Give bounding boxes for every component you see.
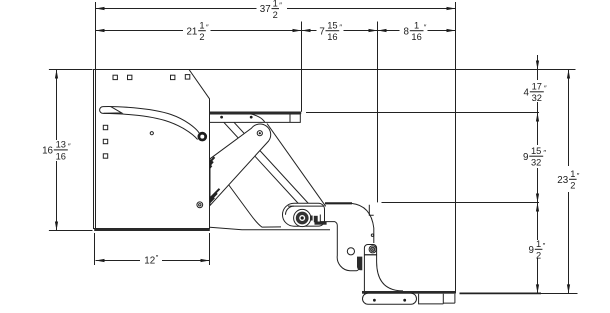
arrow 21.5 left xyxy=(96,29,105,32)
left dim extension ticks xyxy=(49,69,93,71)
dim line 37 1/2 row xyxy=(96,8,257,10)
svg-text:16: 16 xyxy=(56,151,66,161)
arrow 12 left xyxy=(96,259,105,262)
bracket small hole xyxy=(371,234,373,236)
spring arm crease xyxy=(104,106,122,113)
upper tread top surface thick xyxy=(210,112,302,115)
svg-text:″: ″ xyxy=(68,142,71,151)
arrow 9_15/32 bottom xyxy=(536,194,539,203)
label 7 15/16 xyxy=(319,21,342,43)
upper tread body xyxy=(210,114,301,122)
riser gusset hypotenuse xyxy=(267,124,326,207)
bracket big hole xyxy=(347,248,354,255)
svg-text:17: 17 xyxy=(532,82,542,92)
plate rivet double circle xyxy=(197,202,203,208)
svg-text:32: 32 xyxy=(531,158,541,168)
label 21 1/2 xyxy=(186,21,209,43)
arrow 9_1/2 bottom xyxy=(536,284,539,293)
arrow 37.5 left xyxy=(96,7,105,10)
svg-text:2: 2 xyxy=(536,251,541,261)
step bracket shoulder and right edge xyxy=(352,203,374,243)
dim line 21 1/2 segment xyxy=(96,30,184,32)
step channel mid xyxy=(419,294,455,304)
wire dim extension line left x=95 xyxy=(95,2,97,70)
spring arm xyxy=(103,107,199,140)
svg-text:23: 23 xyxy=(557,175,568,186)
svg-text:9: 9 xyxy=(523,152,528,163)
svg-text:″: ″ xyxy=(156,253,159,262)
arrow 23_1/2 bottom xyxy=(567,284,570,293)
step bracket hook and left edge xyxy=(320,215,359,271)
arrow 23_1/2 top xyxy=(567,70,570,79)
hatch wedge upper xyxy=(210,157,215,168)
svg-text:2: 2 xyxy=(273,10,278,20)
label 9 1/2 xyxy=(529,239,546,261)
svg-text:″: ″ xyxy=(544,84,547,93)
pad bolt 2 xyxy=(403,299,406,302)
plate hole row top 1 xyxy=(113,75,117,79)
svg-text:15: 15 xyxy=(531,146,541,156)
label 12 xyxy=(144,253,158,266)
svg-text:9: 9 xyxy=(529,245,534,256)
plate small hole xyxy=(150,132,153,135)
boss notch xyxy=(310,216,313,221)
upper tread end lip xyxy=(289,114,291,122)
hook dark fill xyxy=(314,216,318,223)
front arm lower boss xyxy=(283,203,325,226)
arrow 12 right xyxy=(201,259,210,262)
wire dim extension line x=301 xyxy=(301,22,303,112)
arm cap silhouette in tread xyxy=(250,114,265,123)
dim line 8 1/16 segment xyxy=(378,30,400,32)
svg-text:2: 2 xyxy=(570,181,575,191)
upper tread rivet 1 xyxy=(220,116,223,119)
svg-text:″: ″ xyxy=(339,23,342,32)
svg-text:1: 1 xyxy=(273,0,278,8)
mounting plate inner left edge xyxy=(95,70,97,229)
arrow 9_1/2 top xyxy=(536,203,539,212)
svg-text:1: 1 xyxy=(570,169,575,179)
svg-text:13: 13 xyxy=(56,140,66,150)
svg-text:21: 21 xyxy=(186,26,197,37)
spring arm left cap xyxy=(100,107,103,114)
arrow 7_15/16 right xyxy=(369,29,378,32)
plate hole left col 3 xyxy=(103,154,107,158)
arrow 8_1/16 left xyxy=(378,29,387,32)
svg-text:″: ″ xyxy=(424,23,427,32)
arrow 16_13/16 top xyxy=(55,70,58,79)
label 37 1/2 xyxy=(260,0,282,20)
right dim line 23 1/2 x=568.5 xyxy=(568,70,570,167)
step bracket top edge xyxy=(325,202,352,204)
plate hole row top 2 xyxy=(128,75,132,79)
gusset lower bottom edge xyxy=(210,227,330,230)
boss pivot ring hatched xyxy=(298,213,307,222)
bottom dim extension lines xyxy=(94,233,96,265)
arrow 8_1/16 right xyxy=(447,29,456,32)
arrow 16_13/16 bottom xyxy=(55,222,58,231)
label 8 1/16 xyxy=(404,21,427,43)
wire dim extension line x=377 xyxy=(377,22,379,203)
rear arm white strip xyxy=(210,124,271,205)
upper tread rivet 2 xyxy=(250,116,253,119)
arrowheads xyxy=(55,7,570,294)
hatch wedge lower xyxy=(210,189,220,203)
bracket bumper xyxy=(357,257,362,271)
plate hole left col 1 xyxy=(103,125,107,129)
step bracket leg xyxy=(364,255,367,302)
svg-text:16: 16 xyxy=(327,32,337,42)
wire dim extension line right x=454.5 xyxy=(455,2,457,294)
step bracket fillet to step xyxy=(377,255,403,291)
lower step top surface thick xyxy=(362,291,455,294)
boss pivot center xyxy=(301,216,304,219)
svg-text:7: 7 xyxy=(319,26,324,37)
boss left inner arc xyxy=(286,206,295,215)
arrow 37.5 right xyxy=(447,7,456,10)
arrow 7_15/16 left xyxy=(302,29,311,32)
arrow 4_17/32 bottom / 9_15/32 top xyxy=(536,113,539,122)
boss top edge inner line xyxy=(288,205,324,207)
boss pivot outer xyxy=(294,209,311,226)
tread top reference line y=112.5 xyxy=(306,112,539,114)
svg-text:15: 15 xyxy=(327,21,337,31)
sill reference line y=69.2 xyxy=(188,69,576,71)
mounting plate bottom flange xyxy=(94,228,210,231)
pad bolt 1 xyxy=(373,299,376,302)
svg-text:2: 2 xyxy=(199,32,204,42)
label 23 1/2 xyxy=(557,169,580,191)
svg-text:″: ″ xyxy=(543,241,546,250)
svg-text:16: 16 xyxy=(42,146,53,157)
svg-text:12: 12 xyxy=(144,256,155,267)
bracket pivot rings xyxy=(369,246,376,253)
label 4 17/32 xyxy=(524,82,547,104)
plate hole row top 3 xyxy=(171,75,175,79)
svg-text:″: ″ xyxy=(206,23,209,32)
arrow 4_17/32 top outside xyxy=(536,61,539,70)
svg-text:″: ″ xyxy=(279,0,282,9)
bracket top reference line y=202.9 xyxy=(382,202,540,204)
svg-text:32: 32 xyxy=(532,93,542,103)
svg-text:1: 1 xyxy=(414,21,419,31)
arrow 21.5 right xyxy=(293,29,302,32)
plate hole row top 4 xyxy=(185,75,190,80)
label 16 13/16 xyxy=(42,140,71,162)
bracket pivot pad xyxy=(364,245,376,255)
step bottom reference line y=292.9 xyxy=(460,292,542,294)
mounting plate outline xyxy=(94,70,210,229)
spring arm eyelet xyxy=(199,133,206,140)
bottom dim 12 line xyxy=(96,260,141,262)
step bracket stop block xyxy=(369,205,373,215)
svg-text:1: 1 xyxy=(199,21,204,31)
svg-text:4: 4 xyxy=(524,87,530,98)
label 9 15/32 xyxy=(523,146,546,168)
svg-text:37: 37 xyxy=(260,4,271,15)
rear arm pivot xyxy=(257,131,262,136)
svg-text:″: ″ xyxy=(577,171,580,180)
lower step under pad xyxy=(363,293,417,304)
right dim line x=537 segments xyxy=(537,55,539,80)
svg-text:8: 8 xyxy=(404,26,410,37)
front arm xyxy=(224,122,311,211)
riser gusset plate xyxy=(211,161,281,228)
left dim 16 13/16 line xyxy=(56,70,58,141)
dim line 7 15/16 segment xyxy=(302,30,317,32)
svg-text:16: 16 xyxy=(411,32,421,42)
plate hole left col 2 xyxy=(103,139,107,143)
svg-text:1: 1 xyxy=(536,239,541,249)
svg-text:″: ″ xyxy=(543,148,546,157)
